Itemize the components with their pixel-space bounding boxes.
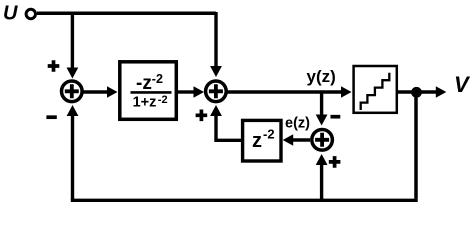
input terminal circle bbox=[26, 9, 35, 18]
sign + for S1 top input bbox=[48, 60, 60, 72]
svg-text:-2: -2 bbox=[152, 72, 163, 86]
wire: S1 output to block H1 bbox=[82, 90, 107, 93]
block z^-2 delay bbox=[243, 120, 281, 161]
sign - for S1 bottom input bbox=[46, 115, 56, 119]
wire: bottom feedback line bbox=[71, 199, 418, 202]
svg-text:-2: -2 bbox=[158, 94, 168, 106]
node: output junction dot bbox=[411, 87, 422, 98]
svg-text:-2: -2 bbox=[263, 127, 275, 142]
wire: S2 output to quantizer bbox=[227, 90, 341, 94]
wire: left feedback up into S1 bbox=[71, 116, 74, 200]
svg-text:y(z): y(z) bbox=[307, 67, 336, 86]
wire: z^-2 output up into S2 bbox=[216, 116, 241, 140]
summer S1 bbox=[62, 81, 83, 102]
block H1 transfer function bbox=[120, 62, 177, 120]
sign + for S3 bottom input bbox=[329, 156, 341, 168]
wire: quantizer output to V bbox=[398, 90, 436, 94]
svg-text:e(z): e(z) bbox=[285, 115, 310, 131]
svg-text:z: z bbox=[252, 130, 262, 152]
sign - for S3 top input bbox=[331, 115, 341, 119]
summer S3 bbox=[312, 130, 333, 151]
wire: branch down from y(z) line into summer S3 bbox=[320, 92, 323, 115]
wire: feedback from node down bbox=[414, 92, 418, 199]
wire: right vertical from top line into summer S2 bbox=[214, 12, 217, 66]
svg-text:1+z: 1+z bbox=[133, 95, 157, 111]
summer S2 bbox=[206, 81, 227, 102]
svg-text:U: U bbox=[3, 3, 18, 25]
wire: S3 output left into z^-2 block bbox=[293, 138, 310, 141]
wire: middle feedback up into S3 bbox=[320, 165, 323, 201]
wire: top horizontal from U terminal bbox=[37, 11, 216, 15]
wire: H1 output to summer S2 bbox=[178, 90, 194, 93]
svg-text:V: V bbox=[454, 72, 470, 97]
svg-text:-z: -z bbox=[136, 73, 152, 94]
quantizer block bbox=[354, 66, 397, 113]
sign + for S2 bottom input bbox=[196, 110, 208, 122]
wire: branch down from top line into summer S1 bbox=[71, 12, 74, 68]
